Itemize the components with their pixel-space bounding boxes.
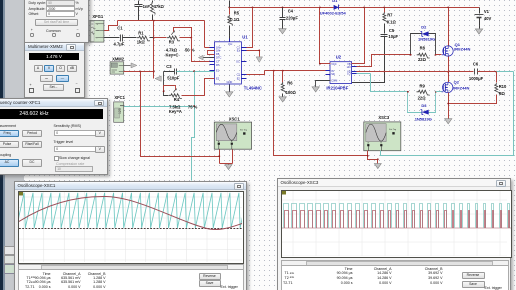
svg-text:UF4002-E3/54: UF4002-E3/54 [320,11,347,16]
label XSC1 [229,117,241,122]
wire XSC3 B cyan [381,72,514,156]
capacitor 1nF [135,5,143,21]
wire off-page VCC feed [139,1,230,8]
svg-text:OC: OC [236,59,240,63]
node divider junctions [153,37,155,73]
label C3 [166,64,179,81]
svg-text:R1: R1 [138,31,144,36]
svg-text:VCC: VCC [331,62,337,66]
svg-text:XSC1: XSC1 [229,117,241,122]
instrument XSC3 [364,122,401,151]
svg-text:1IN-: 1IN- [216,48,221,52]
svg-text:1N5819G: 1N5819G [415,117,432,122]
potentiometer R3 [167,28,192,41]
svg-text:DTC: DTC [216,56,221,60]
svg-text:FB: FB [216,52,220,56]
node C5-VS junction [383,71,385,73]
label R1 [137,31,146,45]
resistor R1 [137,36,150,41]
svg-text:C2: C2 [237,72,241,76]
svg-text:V1: V1 [484,9,490,14]
svg-text:R10: R10 [499,84,507,89]
svg-text:22Ω: 22Ω [418,96,427,101]
capacitor C6 [449,69,497,75]
label XFC1 [114,95,125,100]
svg-text:4.7μF: 4.7μF [114,41,125,46]
wire XSC1 B pin [220,150,233,165]
label R9 [418,83,427,100]
label R3 [166,40,195,58]
resistor R5 [228,8,233,42]
svg-text:IRFZ44N: IRFZ44N [454,47,470,52]
diode D3 loop [408,92,436,113]
svg-text:IRFZ44N: IRFZ44N [453,85,469,90]
resistor R8 [417,53,430,58]
svg-text:LO: LO [347,72,350,76]
svg-text:1kΩ: 1kΩ [137,40,146,45]
instrument XMM2 [110,62,124,74]
svg-text:220μF: 220μF [286,16,298,21]
connector arrow left of C3 [155,76,161,81]
wire R4 to U1 [182,79,215,96]
svg-text:0.1Ω: 0.1Ω [387,20,397,25]
U2 pin stubs [326,64,357,81]
potentiometer R4 [164,86,182,99]
svg-text:Vcc: Vcc [228,42,233,46]
label D2 [418,24,435,41]
svg-text:GND: GND [227,80,233,84]
svg-text:22Ω: 22Ω [418,57,427,62]
wire U1 ground pin [229,85,231,92]
resistor R7 [383,8,388,34]
transistor Q2 IRFZ44N [442,82,453,92]
node R9 junctions [407,91,437,93]
diode D1 UF4002 [334,5,339,10]
node switch junction [447,71,449,73]
label R7 [387,12,397,24]
wire U1 hook [208,51,215,55]
svg-text:Q2: Q2 [454,80,460,85]
wire XFC1 cyan [124,106,195,108]
wire U1 out1 to bus [247,8,253,48]
diode D2 loop [411,34,436,55]
wire U2 VB [352,8,365,64]
ground below XSC3 [374,164,381,169]
label C1 [114,26,125,47]
oscilloscope XSC3 window [277,178,511,290]
node R3 right junction [190,37,192,39]
svg-text:R4: R4 [174,97,180,102]
instrument XFG1 [90,21,104,43]
wire U2 VCC [320,8,331,64]
svg-text:40V: 40V [484,16,492,21]
label 47kOhm [154,4,165,9]
svg-text:510pF: 510pF [167,75,179,80]
svg-text:U2: U2 [336,55,342,60]
svg-text:R9: R9 [420,83,426,88]
svg-text:1N5819G: 1N5819G [418,37,435,42]
wire C3 left leg [164,72,169,96]
battery V1 [475,8,484,29]
instrument XSC1 [214,122,251,149]
svg-text:R5: R5 [234,10,240,15]
svg-text:D1: D1 [332,0,338,3]
node Q2 R10 junction [447,103,449,105]
capacitor C1 [121,35,123,42]
svg-text:Ext Trig: Ext Trig [240,128,247,131]
ground below U1 [226,92,233,97]
wire VS to switch node [352,71,449,73]
svg-text:IR2104PBF: IR2104PBF [326,85,348,90]
svg-text:E2: E2 [216,77,220,81]
wire cyan down [192,72,195,181]
multimeter window [24,42,85,98]
svg-text:R8: R8 [420,45,426,50]
wire HO gate [352,55,411,67]
label C6 [469,61,484,81]
label D1 [320,0,347,16]
ground below R6 [279,97,286,102]
label XSC3 [378,115,390,120]
node XMM2 wire junction [140,71,142,73]
svg-text:TL494NC: TL494NC [244,85,262,90]
wire U1 out2 [247,51,260,57]
svg-text:E2: E2 [237,77,241,81]
wire XFG out to bus [104,21,118,31]
wire divider vertical [153,21,155,79]
op-amp U2 IR2104 box [330,62,352,84]
op-amp U1 TL494 box [215,42,242,84]
wire XSC1 A pin [218,150,220,164]
svg-text:E1: E1 [216,69,220,73]
resistor 47k [151,2,156,20]
svg-text:Key=A: Key=A [169,109,182,114]
label Q2 [453,80,469,91]
wire U2 COM to ground [316,81,331,87]
oscilloscope XSC1 window [14,181,247,290]
wire C6 to probe [497,71,514,73]
wire VCC top bus [230,7,480,9]
svg-text:SD: SD [331,72,335,76]
svg-text:XFG1: XFG1 [92,14,104,19]
svg-text:100Ω: 100Ω [286,90,297,95]
svg-text:D2: D2 [421,24,427,29]
U1 pin stubs [210,39,247,92]
node cyan T [193,105,195,107]
connector arrow at U1 pin [198,55,214,60]
ground below U2 [312,87,319,92]
diode D3 1N5819G [421,110,429,115]
label R8 [418,45,427,62]
wire XMM2 minus [124,71,154,73]
node C6 out junction [495,71,497,73]
node U2 VCC junction [319,63,321,65]
svg-text:C4: C4 [288,9,294,14]
label U1 [242,35,262,91]
wire to XSC1 A [141,72,220,157]
svg-text:HO: HO [347,65,351,69]
svg-text:75 %: 75 % [188,105,198,110]
svg-text:Ext Trig: Ext Trig [389,128,396,131]
node output junctions [273,70,284,72]
svg-text:C5: C5 [389,28,395,33]
svg-text:C1: C1 [117,26,123,31]
svg-text:50 %: 50 % [185,48,195,53]
svg-text:R6: R6 [287,81,293,86]
resistor R6 [281,71,286,97]
svg-text:10μF: 10μF [388,34,398,39]
node cyan junction [193,70,195,72]
resistor R10 [449,72,500,104]
wire U1 output to U2 [247,71,330,75]
svg-text:Key=C: Key=C [166,53,179,58]
node R4 left junction [163,91,165,93]
instrument XFC1 [114,102,124,122]
svg-text:8Ω: 8Ω [499,91,505,96]
transistor Q1 IRFZ44N [442,45,453,56]
wire to XSC3 A [274,71,368,156]
capacitor C4 [280,8,286,29]
node U1 out2 [258,50,260,52]
svg-text:R3: R3 [169,40,175,45]
wire XSC3 A pin [367,151,379,161]
wire C3 to U1 cyan [177,71,215,73]
diode D2 1N5819G [420,31,428,36]
wire switch node [448,57,450,83]
function generator dialog (top-left, cut off) [24,0,89,43]
svg-text:123: 123 [118,108,122,114]
U2 pin labels [331,62,351,83]
wire XSC3 ground stem [377,160,379,164]
svg-text:47kΩ: 47kΩ [154,4,165,9]
ground below V1 [475,29,482,34]
ground below Q2 [445,119,452,124]
wire U2 IN [329,70,331,72]
ground below C4 [279,29,286,34]
U1 pin labels [216,42,240,84]
wire signal main [104,37,192,39]
svg-text:RT: RT [216,63,220,67]
svg-text:XSC3: XSC3 [378,115,390,120]
svg-text:1nF: 1nF [143,4,151,9]
label V1 [484,9,492,21]
ground below XSC1 [225,165,232,170]
capacitor C5 [352,35,388,83]
node R8 junctions [410,54,437,56]
svg-text:R7: R7 [387,12,393,17]
left docked panel strip [0,0,3,290]
label R4 [169,97,198,114]
connector arrow XMM2 [124,63,137,68]
label C4 [286,9,298,21]
wire bus junction dots [228,7,449,9]
svg-text:XMM2: XMM2 [112,56,125,61]
resistor R9 [417,90,430,95]
svg-text:C3: C3 [166,64,172,69]
label D3 [415,103,432,122]
svg-text:1000μF: 1000μF [469,76,484,81]
svg-text:0.1Ω: 0.1Ω [230,17,240,22]
label Q1 [454,42,470,52]
wire R3 to U1 pin [192,38,215,62]
capacitor C3 [164,69,177,75]
svg-text:COM: COM [331,78,337,82]
connector arrow below out2 [256,57,262,63]
node FB junction [153,20,155,22]
svg-text:D3: D3 [421,103,427,108]
frequency counter window [0,98,108,175]
wire feedback bus y20.6 [118,21,215,48]
wire R8 to Q1 gate [436,54,442,56]
label R5 [230,10,240,22]
label R10 [499,84,507,96]
wire R9 to Q2 gate [436,91,442,93]
svg-text:E1: E1 [237,48,241,52]
svg-text:XFC1: XFC1 [114,95,125,100]
wire Q2 source [448,93,450,119]
svg-text:C6: C6 [473,61,479,66]
label XFG1 [92,14,104,19]
wire LO gate [352,74,408,92]
wire Q1 drain [448,8,450,46]
label U2 [326,55,348,91]
svg-text:CT: CT [216,59,220,63]
svg-text:U1: U1 [242,35,248,40]
label 1nF [143,4,151,9]
label R6 [286,81,297,96]
label XMM2 [112,56,125,61]
svg-text:⋯: ⋯ [97,30,99,33]
label C5 [388,28,398,39]
